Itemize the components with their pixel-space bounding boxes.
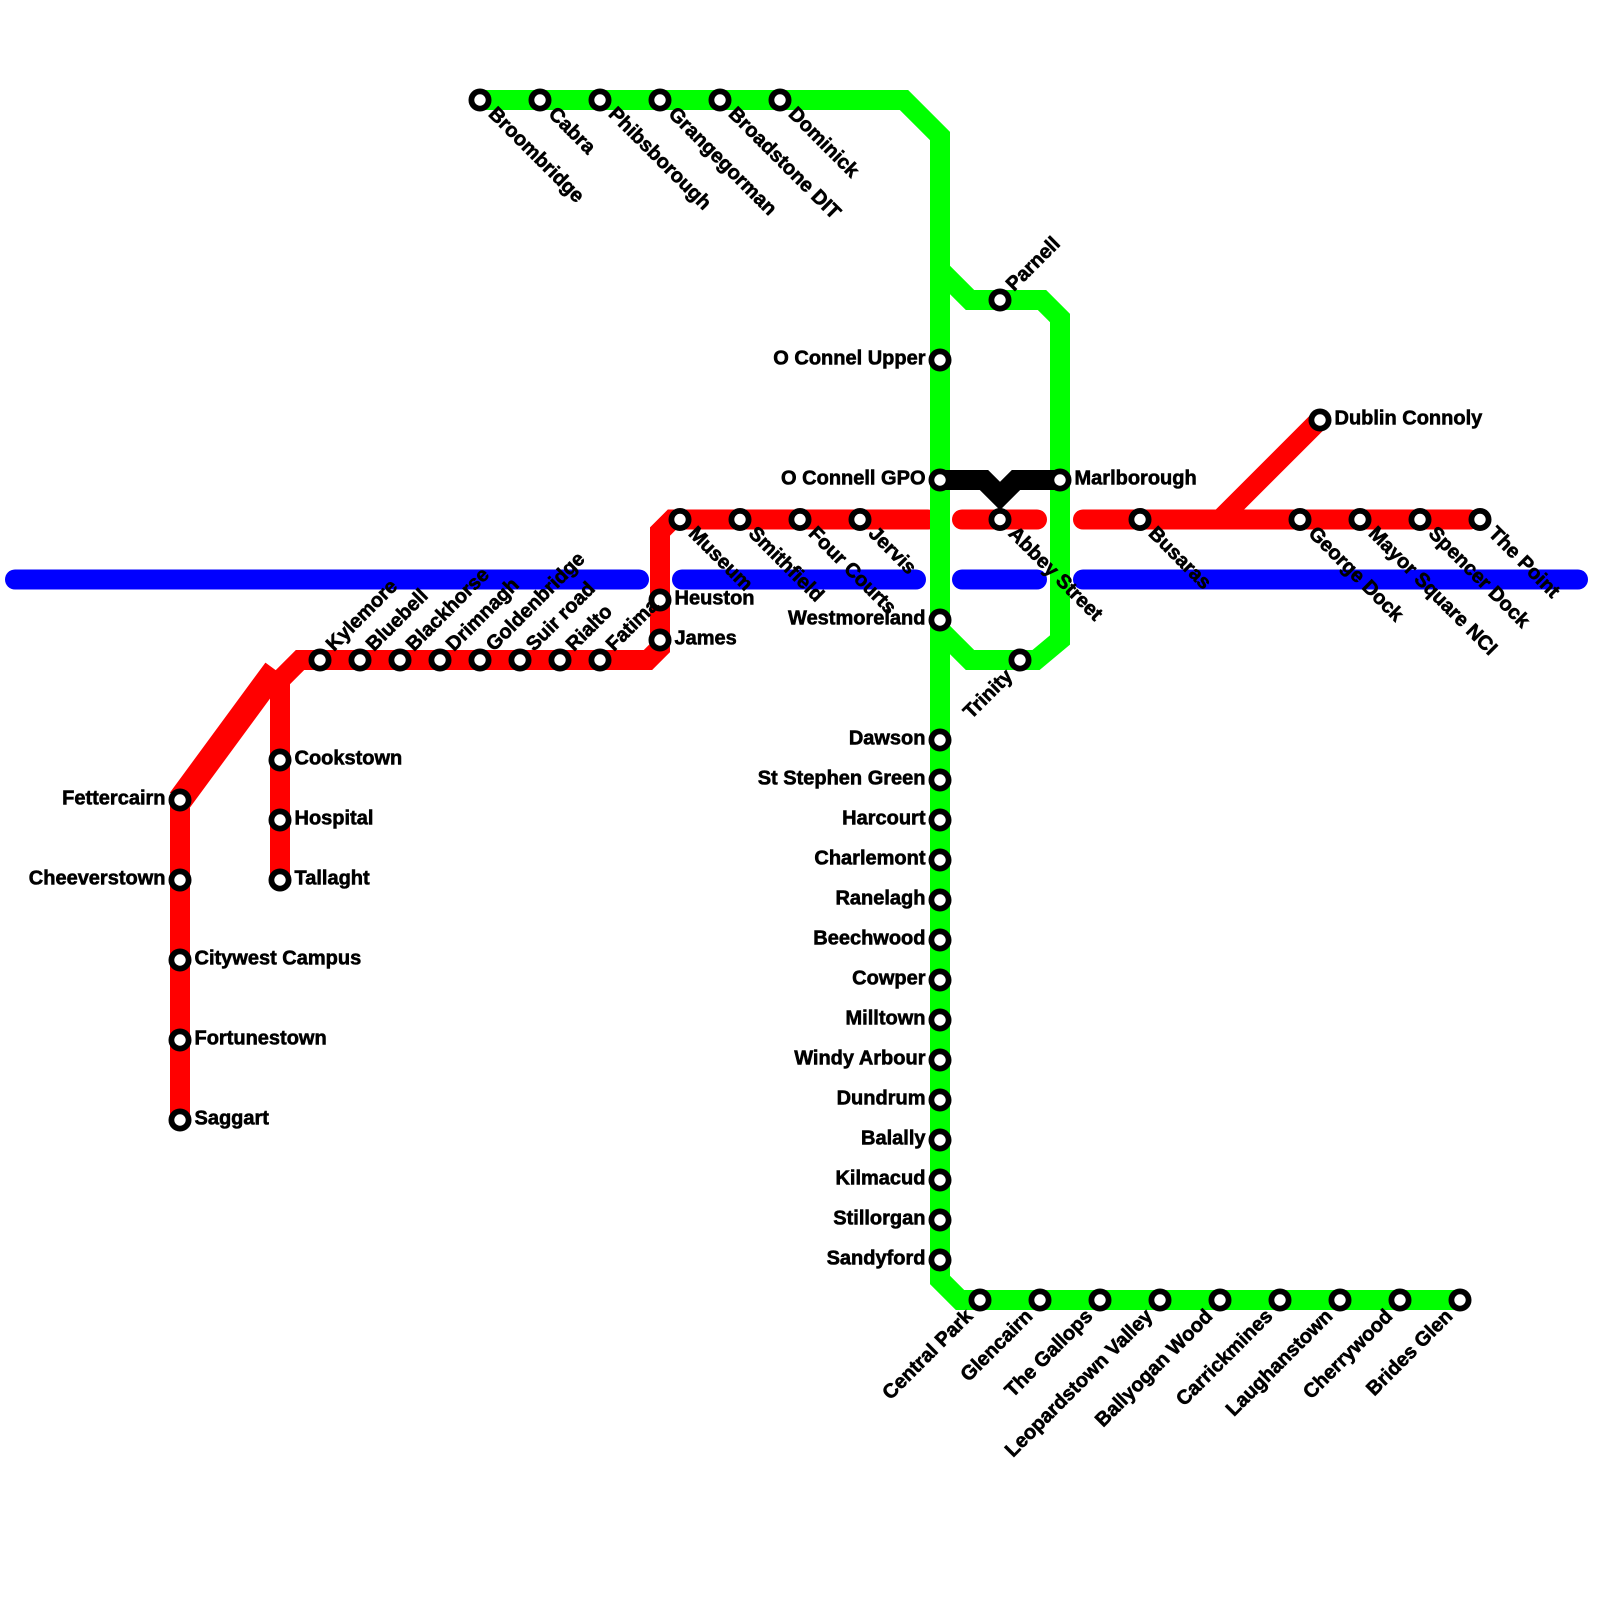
station Dawson <box>931 731 948 748</box>
station Goldenbridge <box>471 651 488 668</box>
blue line segment east <box>1083 570 1578 590</box>
station Dominick <box>771 91 788 108</box>
blue line segment west <box>15 570 639 590</box>
station Ballyogan Wood <box>1211 1291 1228 1308</box>
station Dundrum <box>931 1091 948 1108</box>
svg-text:Cabra: Cabra <box>544 103 600 159</box>
svg-text:Fortunestown: Fortunestown <box>195 1028 327 1050</box>
green line city loop <box>940 270 1060 660</box>
station Ranelagh <box>931 891 948 908</box>
station Broadstone DIT <box>711 91 728 108</box>
station Dublin Connoly <box>1311 411 1328 428</box>
station The Gallops <box>1091 1291 1108 1308</box>
svg-text:Ranelagh: Ranelagh <box>835 888 925 910</box>
station James <box>651 631 668 648</box>
station Trinity <box>1011 651 1028 668</box>
station Glencairn <box>1031 1291 1048 1308</box>
station O Connel Upper <box>931 351 948 368</box>
svg-text:O Connell GPO: O Connell GPO <box>781 468 925 490</box>
station Cheeverstown <box>171 871 188 888</box>
red line segment east <box>1083 510 1470 530</box>
blue line segment centre-east <box>962 570 1037 590</box>
station Bluebell <box>351 651 368 668</box>
svg-text:Citywest Campus: Citywest Campus <box>195 948 362 970</box>
red line Dublin Connoly branch <box>1220 420 1320 520</box>
svg-text:Harcourt: Harcourt <box>842 808 926 830</box>
blue line segment centre-west <box>682 570 916 590</box>
station Marlborough <box>1051 471 1068 488</box>
svg-text:Charlemont: Charlemont <box>814 848 925 870</box>
svg-text:Saggart: Saggart <box>195 1108 270 1130</box>
station Sandyford <box>931 1251 948 1268</box>
svg-text:Milltown: Milltown <box>846 1008 926 1030</box>
svg-text:St Stephen Green: St Stephen Green <box>758 768 926 790</box>
svg-text:Balally: Balally <box>861 1128 926 1150</box>
station Heuston <box>651 591 668 608</box>
svg-text:Cheeverstown: Cheeverstown <box>29 868 166 890</box>
station Fortunestown <box>171 1031 188 1048</box>
station Milltown <box>931 1011 948 1028</box>
red line Saggart branch diagonal <box>180 670 276 800</box>
station The Point <box>1471 511 1488 528</box>
station Drimnagh <box>431 651 448 668</box>
station Jervis <box>851 511 868 528</box>
svg-text:Windy Arbour: Windy Arbour <box>794 1048 926 1070</box>
station Windy Arbour <box>931 1051 948 1068</box>
station Leopardstown Valley <box>1151 1291 1168 1308</box>
station Harcourt <box>931 811 948 828</box>
station Smithfield <box>731 511 748 528</box>
station Four Courts <box>791 511 808 528</box>
station Citywest Campus <box>171 951 188 968</box>
station Cabra <box>531 91 548 108</box>
station Saggart <box>171 1111 188 1128</box>
station Balally <box>931 1131 948 1148</box>
station Cookstown <box>271 751 288 768</box>
station Spencer Dock <box>1411 511 1428 528</box>
station Brides Glen <box>1451 1291 1468 1308</box>
svg-text:Beechwood: Beechwood <box>813 928 925 950</box>
svg-text:Stillorgan: Stillorgan <box>833 1208 925 1230</box>
svg-text:Dublin Connoly: Dublin Connoly <box>1335 408 1484 430</box>
station Phibsborough <box>591 91 608 108</box>
station Rialto <box>551 651 568 668</box>
svg-text:Grangegorman: Grangegorman <box>664 103 781 220</box>
svg-text:Heuston: Heuston <box>675 588 755 610</box>
svg-text:Parnell: Parnell <box>1002 233 1065 296</box>
svg-text:Tallaght: Tallaght <box>295 868 371 890</box>
svg-text:Hospital: Hospital <box>295 808 374 830</box>
svg-text:Westmoreland: Westmoreland <box>788 608 925 630</box>
svg-text:Kilmacud: Kilmacud <box>835 1168 925 1190</box>
svg-text:Dawson: Dawson <box>849 728 926 750</box>
station Kylemore <box>311 651 328 668</box>
red line segment Abbey Street <box>962 510 1037 530</box>
station Kilmacud <box>931 1171 948 1188</box>
station Central Park <box>971 1291 988 1308</box>
station Stillorgan <box>931 1211 948 1228</box>
station Museum <box>671 511 688 528</box>
station Mayor Square NCI <box>1351 511 1368 528</box>
red line west branch (Museum-Heuston-James-Fatima-Kylemore-Tallaght) <box>280 520 928 881</box>
station Parnell <box>991 291 1008 308</box>
svg-text:Marlborough: Marlborough <box>1075 468 1197 490</box>
green line main (Broombridge - trunk - Brides Glen) <box>480 100 1460 1300</box>
svg-text:O Connel Upper: O Connel Upper <box>773 348 925 370</box>
station Tallaght <box>271 871 288 888</box>
station Westmoreland <box>931 611 948 628</box>
station Cherrywood <box>1391 1291 1408 1308</box>
svg-text:Broadstone DIT: Broadstone DIT <box>724 103 845 224</box>
black interchange connector O Connell GPO - Abbey Street - Marlborough <box>940 480 1060 496</box>
station Carrickmines <box>1271 1291 1288 1308</box>
svg-text:Sandyford: Sandyford <box>827 1248 926 1270</box>
station Fettercairn <box>171 791 188 808</box>
station Abbey Street <box>991 511 1008 528</box>
station Broombridge <box>471 91 488 108</box>
station O Connell GPO <box>931 471 948 488</box>
svg-text:Cookstown: Cookstown <box>295 748 403 770</box>
station St Stephen Green <box>931 771 948 788</box>
svg-text:Laughanstown: Laughanstown <box>1222 1305 1337 1420</box>
station Laughanstown <box>1331 1291 1348 1308</box>
svg-text:Fettercairn: Fettercairn <box>62 788 165 810</box>
svg-text:Dundrum: Dundrum <box>837 1088 926 1110</box>
station Suir road <box>511 651 528 668</box>
svg-text:Trinity: Trinity <box>959 665 1018 724</box>
station Fatima <box>591 651 608 668</box>
station Grangegorman <box>651 91 668 108</box>
station George Dock <box>1291 511 1308 528</box>
station Charlemont <box>931 851 948 868</box>
station Hospital <box>271 811 288 828</box>
station Blackhorse <box>391 651 408 668</box>
red line Saggart branch vertical <box>170 800 190 1120</box>
station Beechwood <box>931 931 948 948</box>
svg-text:James: James <box>675 628 737 650</box>
svg-text:Phibsborough: Phibsborough <box>604 103 715 214</box>
station Cowper <box>931 971 948 988</box>
station Busaras <box>1131 511 1148 528</box>
svg-text:Cowper: Cowper <box>852 968 926 990</box>
svg-text:Central Park: Central Park <box>878 1305 977 1404</box>
